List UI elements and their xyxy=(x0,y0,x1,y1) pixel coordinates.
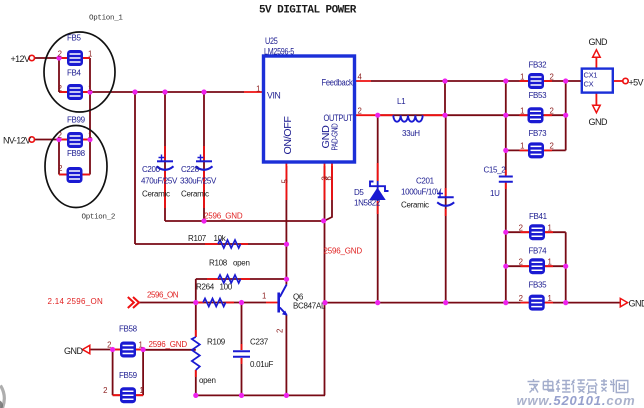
wire bottom rail xyxy=(196,394,325,396)
wire red stubs FB41 xyxy=(521,231,554,233)
svg-text:GND: GND xyxy=(589,37,609,47)
wire 2596_GND upper rail xyxy=(165,220,325,222)
svg-text:FB35: FB35 xyxy=(529,281,548,290)
svg-text:2: 2 xyxy=(58,50,62,59)
svg-text:open: open xyxy=(199,376,216,385)
node gnd rail U25 pins xyxy=(321,218,326,223)
svg-text:1: 1 xyxy=(88,131,92,140)
wire R109 upper lead xyxy=(195,303,197,338)
ferrite bead FB58 xyxy=(120,342,136,358)
svg-text:5V DIGITAL POWER: 5V DIGITAL POWER xyxy=(259,5,357,17)
wire 2596_ON row xyxy=(139,302,266,304)
terminal NV-12V xyxy=(29,137,34,142)
wire red stubs R264 and Q6 base xyxy=(197,302,278,304)
svg-text:FB73: FB73 xyxy=(529,129,548,138)
transistor Q2 Q6 BC847AL xyxy=(279,285,288,316)
wire ON/OFF to Q6 collector xyxy=(285,166,287,285)
node FB58 right xyxy=(141,347,146,352)
svg-text:GND: GND xyxy=(629,299,644,309)
node feedback tie xyxy=(442,78,447,83)
svg-text:FB59: FB59 xyxy=(119,371,138,380)
wire U25 pad-gnd pin6 jog xyxy=(325,166,332,221)
wire red stubs C201 xyxy=(445,188,447,216)
node 2596_ON R109 xyxy=(193,300,198,305)
svg-text:2: 2 xyxy=(58,131,62,140)
svg-text:Ceramic: Ceramic xyxy=(401,201,429,210)
svg-text:2: 2 xyxy=(58,164,62,173)
svg-text:2: 2 xyxy=(358,107,362,116)
svg-text:2: 2 xyxy=(103,386,107,395)
svg-text:FB98: FB98 xyxy=(67,149,86,158)
ferrite bead FB53 xyxy=(528,107,544,123)
svg-text:FB32: FB32 xyxy=(529,61,548,70)
node lower rail 2596 gnd xyxy=(322,300,327,305)
svg-text:R108: R108 xyxy=(209,259,228,268)
resistor R264 zigzag xyxy=(203,299,226,307)
wire red stub CX1 top gnd xyxy=(595,57,597,69)
svg-text:2: 2 xyxy=(519,294,523,303)
node lower rail C15_2 xyxy=(503,300,508,305)
wire FB59 loop left xyxy=(112,350,114,396)
wire vertical right options column xyxy=(89,58,91,175)
wire red stubs FB99 xyxy=(60,139,90,141)
svg-text:CX: CX xyxy=(584,80,594,89)
capacitor C228 polarized xyxy=(196,155,213,170)
svg-text:1: 1 xyxy=(88,50,92,59)
wire red stubs FB59 xyxy=(113,394,144,396)
svg-text:Option_2: Option_2 xyxy=(82,214,116,222)
svg-text:C228: C228 xyxy=(181,165,200,174)
wire red stubs R108 xyxy=(207,278,250,280)
svg-text:NV-12V: NV-12V xyxy=(3,136,31,146)
ground arrow up CX1 xyxy=(593,50,601,58)
wire red stub CX1 bottom gnd xyxy=(595,93,597,106)
svg-text:100: 100 xyxy=(220,283,233,292)
node FB73 left xyxy=(503,148,508,153)
ferrite bead FB98 xyxy=(67,167,83,183)
svg-text:C200: C200 xyxy=(142,165,161,174)
svg-text:1: 1 xyxy=(520,142,524,151)
node FB4 bus corner xyxy=(87,89,92,94)
svg-text:GND: GND xyxy=(589,117,609,127)
svg-text:6: 6 xyxy=(325,176,334,180)
chevron 2596_ON xyxy=(128,297,139,308)
wire right column top vertical xyxy=(565,81,567,150)
wire C15_2 bottom vertical xyxy=(505,183,507,303)
wire C201 vertical xyxy=(445,115,447,302)
Option_2 ellipse xyxy=(45,126,107,208)
wire R109 lower lead xyxy=(195,370,197,395)
svg-text:1N5822: 1N5822 xyxy=(354,199,381,208)
ferrite bead FB59 xyxy=(120,387,136,403)
svg-text:2: 2 xyxy=(550,73,554,82)
wire +12V input to FB5 row xyxy=(34,57,90,59)
svg-text:R107: R107 xyxy=(188,234,207,243)
svg-text:www.520101.com: www.520101.com xyxy=(517,393,636,408)
svg-text:OUTPUT: OUTPUT xyxy=(324,113,353,124)
svg-text:Feedback: Feedback xyxy=(322,78,353,89)
node bottom rail C237 xyxy=(239,393,244,398)
svg-text:D5: D5 xyxy=(354,188,364,197)
capacitor C200 polarized xyxy=(157,155,174,170)
node C228 gnd rail xyxy=(201,218,206,223)
svg-text:1: 1 xyxy=(548,224,552,233)
node bus R107 feed xyxy=(132,89,137,94)
wire D5 vertical xyxy=(377,115,379,302)
node output D5 xyxy=(375,113,380,118)
svg-text:2: 2 xyxy=(519,258,523,267)
wire FB58 row xyxy=(113,349,144,351)
resistor R109 zigzag vertical xyxy=(192,337,200,370)
svg-text:VIN: VIN xyxy=(267,91,281,102)
ferrite bead FB35 xyxy=(529,295,545,311)
node bus C200 xyxy=(162,89,167,94)
svg-text:Q6: Q6 xyxy=(293,293,304,302)
svg-text:2: 2 xyxy=(550,107,554,116)
wire 5V vertical to C15_2 xyxy=(505,81,507,175)
svg-text:2: 2 xyxy=(276,329,285,333)
wire R107 row xyxy=(135,243,287,245)
terminal +12V xyxy=(29,55,34,60)
ground arrow left at FB58 xyxy=(83,345,90,353)
svg-text:BC847AL: BC847AL xyxy=(293,302,326,311)
wire red stubs C228 xyxy=(203,146,205,208)
svg-text:2: 2 xyxy=(107,341,111,350)
svg-text:2: 2 xyxy=(550,142,554,151)
svg-text:1: 1 xyxy=(139,341,143,350)
node R108 collector xyxy=(284,277,289,282)
svg-text:1: 1 xyxy=(548,258,552,267)
wire red stubs FB35 xyxy=(521,302,554,304)
wire red stubs C15_2 xyxy=(505,170,507,189)
wire red stub feedback pin4 xyxy=(355,80,372,82)
ferrite bead FB32 xyxy=(528,73,544,89)
diode D5 schottky xyxy=(369,181,388,201)
wire red stub output pin2 to L1 xyxy=(355,114,446,116)
wire FB59 loop right xyxy=(142,350,144,396)
wire output row xyxy=(378,114,566,116)
wire FB41 row xyxy=(506,231,566,233)
svg-text:C237: C237 xyxy=(250,338,269,347)
node NV-12V tee xyxy=(56,137,61,142)
ground arrow right xyxy=(620,298,627,306)
wire FB98 row xyxy=(59,174,90,176)
ferrite bead FB74 xyxy=(529,258,545,274)
wire red stubs FB98 xyxy=(59,174,90,176)
svg-text:R264: R264 xyxy=(196,283,215,292)
svg-text:LM2596-5: LM2596-5 xyxy=(264,47,294,57)
wire red stub CX1 to +5V xyxy=(613,80,623,82)
node lower rail D5 xyxy=(375,300,380,305)
watermark chinese characters xyxy=(528,379,628,394)
wire red stubs FB74 xyxy=(521,265,554,267)
svg-text:Ceramic: Ceramic xyxy=(142,190,170,199)
svg-text:4: 4 xyxy=(358,73,363,82)
node +12V/FB5 tee xyxy=(56,55,61,60)
svg-text:U25: U25 xyxy=(265,36,278,47)
wire red stubs R109 xyxy=(195,330,197,377)
wire R108 left drop xyxy=(195,279,197,303)
wire red stub VIN pin1 xyxy=(244,91,264,93)
wire feedback to output tie xyxy=(444,81,446,115)
svg-text:330uF/25V: 330uF/25V xyxy=(180,177,217,186)
wire C237 upper lead xyxy=(241,303,243,351)
node FB32 right xyxy=(563,78,568,83)
svg-text:10k: 10k xyxy=(214,234,227,243)
svg-text:2596_GND: 2596_GND xyxy=(149,340,188,349)
ferrite bead FB4 xyxy=(67,84,83,100)
wire 2596_GND lower rail to GND arrow xyxy=(325,302,620,304)
wire R108 row xyxy=(196,278,287,280)
svg-text:open: open xyxy=(233,259,250,268)
wire C237 lower lead xyxy=(241,358,243,395)
svg-text:FB74: FB74 xyxy=(529,247,548,256)
svg-text:FB58: FB58 xyxy=(119,325,138,334)
svg-text:1: 1 xyxy=(520,73,524,82)
ferrite bead FB73 xyxy=(528,142,544,158)
wire C228 vertical xyxy=(203,92,205,221)
svg-text:FB4: FB4 xyxy=(67,69,82,78)
svg-text:2.14 2596_ON: 2.14 2596_ON xyxy=(48,297,104,306)
wire right column bottom vertical xyxy=(565,232,567,302)
svg-text:1000uF/10V: 1000uF/10V xyxy=(401,188,442,197)
node 2596_ON C237 xyxy=(239,300,244,305)
svg-text:0.01uF: 0.01uF xyxy=(250,360,274,369)
svg-text:L1: L1 xyxy=(397,97,406,106)
resistor R107 zigzag xyxy=(218,240,241,248)
wire FB59 row xyxy=(113,394,144,396)
wire main VIN bus xyxy=(90,91,244,93)
node FB74 left xyxy=(503,264,508,269)
capacitor C201 polarized xyxy=(437,191,454,206)
ferrite bead FB5 xyxy=(67,50,83,66)
inductor L1 xyxy=(393,115,422,122)
wire FB73 row xyxy=(506,149,566,151)
wire red stubs FB73 xyxy=(520,149,553,151)
node FB41 left xyxy=(503,230,508,235)
node bus C228 xyxy=(201,89,206,94)
node bottom rail R109 xyxy=(193,393,198,398)
wire 2596_GND stub to R109 xyxy=(143,349,196,351)
node output 5V column xyxy=(503,113,508,118)
terminal +5V xyxy=(623,78,628,83)
svg-text:1: 1 xyxy=(256,85,260,94)
svg-text:1: 1 xyxy=(88,84,92,93)
svg-text:FB5: FB5 xyxy=(67,34,82,43)
svg-text:1: 1 xyxy=(548,294,552,303)
wire red stubs D5 xyxy=(377,163,379,214)
wire GND arrow to FB58 xyxy=(89,349,112,351)
wire NV-12V input to FB99 row xyxy=(34,139,90,141)
svg-text:5: 5 xyxy=(281,179,290,184)
svg-text:2: 2 xyxy=(58,84,62,93)
wire red stubs FB58 xyxy=(113,349,144,351)
svg-text:GND: GND xyxy=(64,346,84,356)
wire red stubs FB4 xyxy=(60,91,90,93)
ground arrow down CX1 xyxy=(593,105,601,113)
wire feedback row xyxy=(371,80,582,82)
svg-text:+5V: +5V xyxy=(629,78,644,88)
capacitor C237 xyxy=(233,351,250,357)
ferrite bead FB41 xyxy=(529,224,545,240)
wire FB74 row xyxy=(506,265,566,267)
wire red stubs FB32 xyxy=(520,80,553,82)
svg-text:2: 2 xyxy=(519,224,523,233)
wire red stubs FB5 xyxy=(60,57,90,59)
wire C200 vertical xyxy=(164,92,166,221)
svg-text:Ceramic: Ceramic xyxy=(181,190,209,199)
svg-text:C15_2: C15_2 xyxy=(484,166,507,175)
node feedback 5V column xyxy=(503,78,508,83)
wire U25 gnd pin3 down to bottom rail xyxy=(324,166,326,395)
wire red stubs C237 xyxy=(241,344,243,364)
svg-text:R109: R109 xyxy=(207,338,226,347)
node FB74 right xyxy=(563,264,568,269)
resistor R108 zigzag xyxy=(218,275,241,283)
svg-text:FB41: FB41 xyxy=(529,212,548,221)
node lower rail FB35 right xyxy=(563,300,568,305)
node FB99 right tee xyxy=(87,137,92,142)
svg-text:33uH: 33uH xyxy=(402,129,420,138)
node lower rail C201 xyxy=(443,300,448,305)
op-amp U1 U25 LM2596-5 box xyxy=(264,56,355,162)
svg-text:2596_ON: 2596_ON xyxy=(147,291,179,300)
svg-text:1: 1 xyxy=(262,292,266,301)
node FB58 left xyxy=(110,347,115,352)
svg-text:Option_1: Option_1 xyxy=(89,15,123,23)
wire vertical left option1 xyxy=(58,58,60,92)
svg-text:2596_GND: 2596_GND xyxy=(204,212,243,221)
svg-text:C201: C201 xyxy=(416,177,435,186)
capacitor C15_2 xyxy=(499,177,513,182)
svg-text:FB99: FB99 xyxy=(67,116,86,125)
wire red stubs U25 bottom pins xyxy=(286,162,332,200)
svg-text:+12V: +12V xyxy=(11,54,30,64)
wire red stubs FB53 xyxy=(520,114,553,116)
wire R107 feed vertical xyxy=(134,92,136,244)
wire vertical left option2 xyxy=(58,140,60,175)
wire Q6 emitter down xyxy=(285,315,287,396)
svg-text:ON/OFF: ON/OFF xyxy=(283,116,294,154)
svg-text:PAD-GND: PAD-GND xyxy=(331,123,340,150)
ferrite bead FB99 xyxy=(67,132,83,148)
svg-text:FB53: FB53 xyxy=(529,91,548,100)
node bottom rail emitter xyxy=(284,393,289,398)
wire red stubs R107 xyxy=(205,243,248,245)
svg-text:2596_GND: 2596_GND xyxy=(324,247,363,256)
svg-text:1U: 1U xyxy=(490,189,500,198)
Option_1 ellipse xyxy=(44,32,115,112)
svg-text:1: 1 xyxy=(140,386,144,395)
wire FB4 row xyxy=(59,91,90,93)
svg-text:1: 1 xyxy=(520,107,524,116)
watermark ring bottom-left xyxy=(1,386,5,408)
svg-text:CX1: CX1 xyxy=(584,71,598,80)
svg-text:470uF/25V: 470uF/25V xyxy=(141,177,178,186)
node R107 collector xyxy=(284,242,289,247)
node FB53 right xyxy=(563,113,568,118)
CX1 connector box xyxy=(582,69,613,93)
node output L1 C201 xyxy=(442,113,447,118)
wire red stubs C200 xyxy=(164,146,166,208)
